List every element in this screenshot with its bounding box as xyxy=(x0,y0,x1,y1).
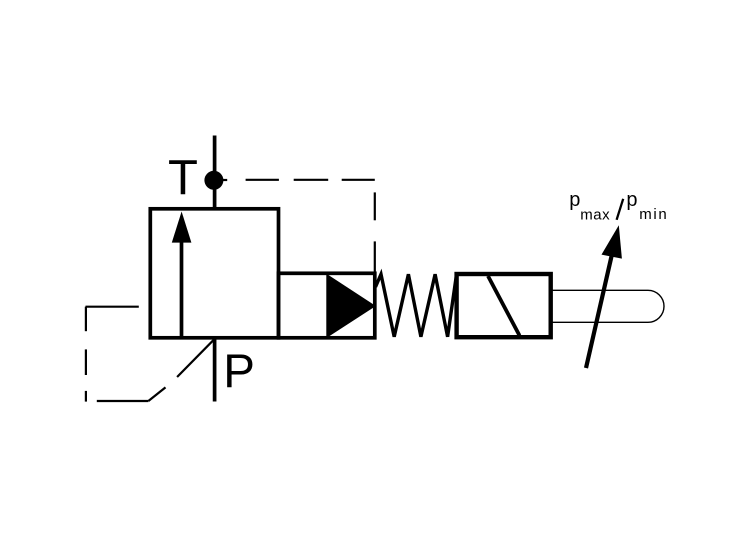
solenoid box xyxy=(457,274,551,337)
adjustment arrow head xyxy=(602,225,622,258)
svg-text:min: min xyxy=(639,206,668,223)
svg-text:P: P xyxy=(223,345,255,398)
solenoid diagonal stroke xyxy=(488,276,520,336)
armature pin with rounded end xyxy=(551,290,664,322)
adjustment arrow shaft xyxy=(586,255,612,368)
adjustment diagonal dash upper xyxy=(177,339,214,377)
pilot sense line: stub dash at dot xyxy=(223,179,228,181)
node: T junction dot xyxy=(204,171,223,190)
pilot sense line: horizontal dash 3 xyxy=(342,179,375,181)
pilot sense line: horizontal dash 1 xyxy=(246,179,279,181)
main valve body square xyxy=(150,209,278,338)
pilot stage box xyxy=(279,273,375,338)
svg-text:p: p xyxy=(569,189,580,211)
dashed pilot box: left vertical dash 3 xyxy=(85,391,87,402)
dashed pilot box: left vertical dash 2 xyxy=(85,349,87,375)
wire: P port vertical line xyxy=(213,338,217,402)
spring xyxy=(376,274,457,337)
svg-text:p: p xyxy=(626,189,637,211)
pilot sense line: vertical dash 2 xyxy=(374,241,376,273)
svg-text:max: max xyxy=(580,207,610,224)
poppet triangle xyxy=(327,276,374,337)
svg-text:T: T xyxy=(168,151,198,205)
dashed pilot box: left vertical dash 1 xyxy=(85,307,87,332)
adjustment diagonal dash lower xyxy=(148,387,165,401)
flow arrow head xyxy=(172,212,192,243)
pilot sense line: vertical dash 1 xyxy=(374,192,376,220)
label slash xyxy=(617,199,624,220)
dashed pilot box: top horizontal dash xyxy=(86,306,139,308)
pilot sense line: horizontal dash 2 xyxy=(294,179,329,181)
flow arrow shaft inside valve xyxy=(180,242,184,338)
dashed pilot box: bottom horizontal dash xyxy=(97,400,149,402)
wire: T port vertical line xyxy=(213,136,217,211)
